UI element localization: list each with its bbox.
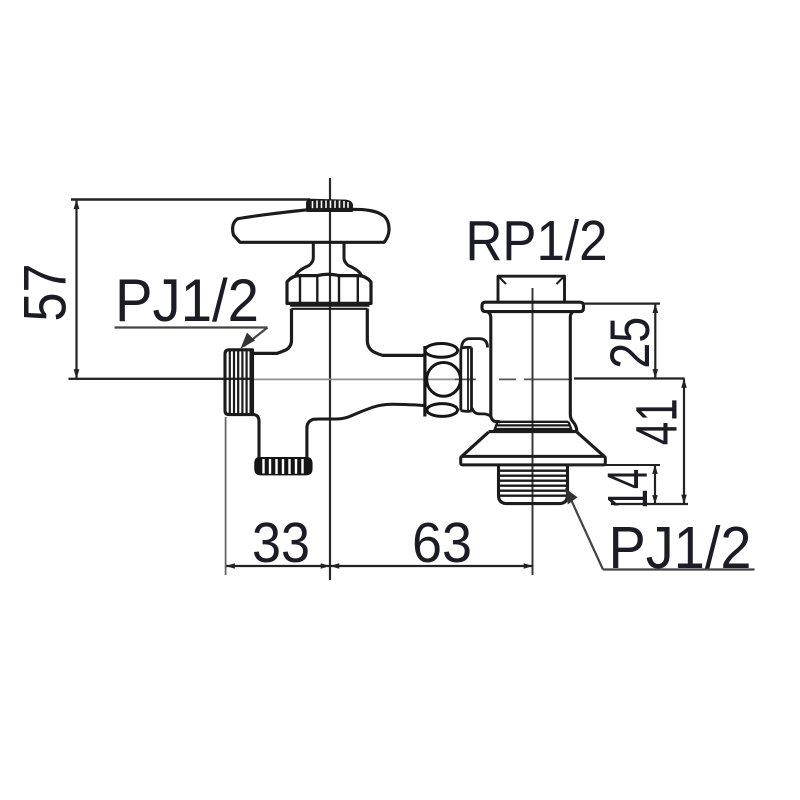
drain plug protrusion under left arm [253,415,337,458]
svg-text:PJ1/2: PJ1/2 [115,267,259,334]
flared skirt cone [462,432,604,457]
shared extension line at centerline level (25 bottom / 41 top) [574,377,685,379]
right vertical body walls [488,312,578,432]
union coupling nut (side cylinder with ellipses) [425,344,461,417]
hex bonnet nut [287,274,371,309]
svg-text:57: 57 [12,264,79,322]
dimension 25 top extension line from flange [584,303,660,305]
collar between union nut and body [462,339,492,417]
bottom outlet male thread PJ1/2 (horizontal thread lines) [499,465,568,504]
gland ridge band above skirt [494,422,572,432]
dimension 57 vertical line with arrowheads [75,200,77,379]
dimension 57 top extension line to handle cap [71,198,310,200]
wire horizontal centerline grey through valve body [252,378,455,380]
thread chamfers inside port mouth [499,277,565,285]
body underside S-curve up to union nut [337,404,426,419]
union nut rear flange strip [461,347,472,411]
wire horizontal centerline dashes near union nut [455,378,572,380]
bottom dimension line 33 / 63 [226,565,533,567]
wire main vertical centerline axis of handle/valve [329,178,331,580]
left outlet male thread PJ1/2 (vertical hatching) [225,350,253,415]
wire right outlet vertical centerline axis [532,288,534,575]
dimension 25 vertical line with arrowheads [654,304,656,379]
dimension 41 vertical line with arrowheads [683,379,685,505]
wire horizontal centerline left dark part (also 57 bottom extension) [69,378,253,380]
dimension 14 vertical line with arrowheads [654,465,656,504]
dimension 14 top extension line from thread top [568,464,661,466]
dimension 14 bottom extension line [611,503,688,505]
bonnet washer band under hex [290,306,370,309]
drain knurled cap (striped) [255,458,312,475]
valve stem below handle [296,242,362,275]
svg-text:41: 41 [625,398,690,445]
svg-text:33: 33 [252,511,310,575]
skirt base band [461,456,606,465]
valve body center: neck, shoulders and arms outline [253,309,426,356]
bottom dimension left extension line [225,417,227,575]
svg-text:RP1/2: RP1/2 [466,209,608,273]
body top flange [482,302,584,311]
handle (crutch handle side view) [233,209,389,242]
svg-text:PJ1/2: PJ1/2 [609,515,752,581]
svg-text:14: 14 [596,469,660,509]
svg-text:63: 63 [412,511,472,575]
svg-text:25: 25 [598,317,661,369]
handle knurled cap screw on top [307,200,352,211]
top inlet port RP1/2 (female) [498,276,565,302]
bottom dimension arrowheads [226,563,533,569]
